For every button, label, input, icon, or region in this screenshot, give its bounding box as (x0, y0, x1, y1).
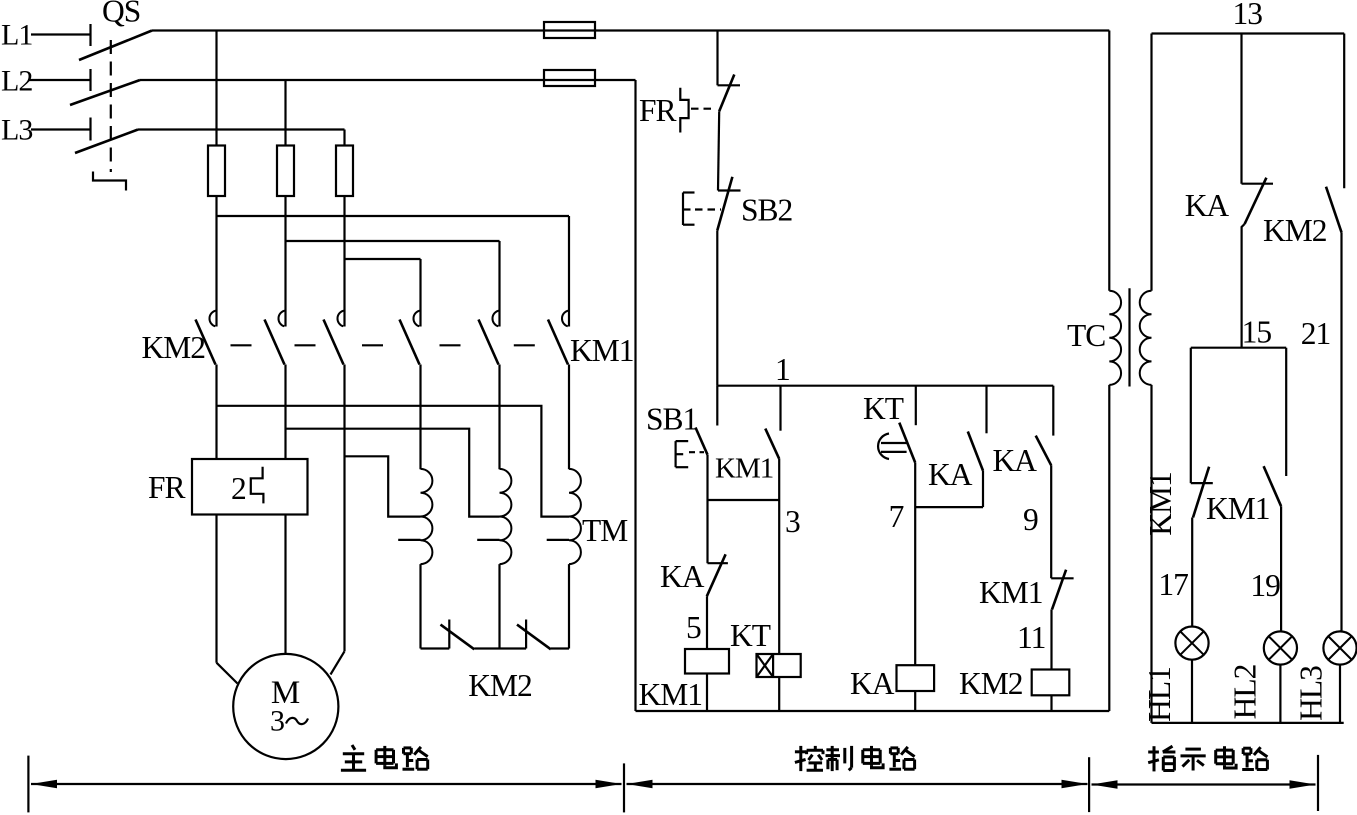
svg-text:KM2: KM2 (468, 668, 532, 703)
svg-text:KM2: KM2 (1263, 213, 1327, 248)
svg-text:19: 19 (1250, 568, 1280, 603)
svg-text:KM2: KM2 (141, 330, 205, 365)
svg-text:KA: KA (850, 666, 895, 701)
svg-text:3: 3 (270, 705, 284, 738)
svg-text:KM1: KM1 (639, 677, 703, 712)
svg-text:17: 17 (1158, 567, 1188, 602)
svg-text:1: 1 (775, 352, 790, 387)
svg-text:QS: QS (102, 0, 140, 29)
svg-text:L3: L3 (1, 114, 32, 147)
svg-text:5: 5 (686, 610, 701, 645)
svg-text:KA: KA (993, 443, 1038, 478)
svg-text:KM1: KM1 (979, 575, 1043, 610)
svg-text:KM1: KM1 (1206, 491, 1270, 526)
svg-text:7: 7 (889, 499, 904, 534)
svg-text:HL3: HL3 (1294, 666, 1329, 721)
svg-text:15: 15 (1242, 315, 1272, 350)
svg-text:11: 11 (1017, 620, 1045, 655)
svg-text:KM1: KM1 (570, 333, 634, 368)
svg-text:KM1: KM1 (1143, 472, 1178, 536)
svg-text:TM: TM (582, 513, 628, 548)
svg-text:13: 13 (1233, 0, 1263, 31)
svg-text:KM1: KM1 (715, 453, 773, 485)
svg-text:L2: L2 (1, 65, 32, 98)
svg-text:L1: L1 (1, 19, 32, 52)
svg-text:FR: FR (148, 470, 186, 505)
svg-text:KA: KA (660, 559, 705, 594)
svg-text:TC: TC (1067, 318, 1105, 353)
svg-text:3: 3 (785, 504, 800, 539)
svg-text:KA: KA (1185, 188, 1230, 223)
svg-text:21: 21 (1301, 316, 1331, 351)
svg-text:2: 2 (231, 471, 246, 506)
svg-text:HL2: HL2 (1227, 664, 1262, 719)
svg-text:KT: KT (863, 391, 904, 426)
svg-text:KM2: KM2 (959, 666, 1023, 701)
svg-text:FR: FR (639, 93, 677, 128)
svg-text:KA: KA (928, 457, 973, 492)
svg-text:SB1: SB1 (646, 402, 697, 437)
svg-text:KT: KT (730, 618, 771, 653)
svg-text:SB2: SB2 (741, 193, 793, 228)
svg-text:HL1: HL1 (1142, 667, 1177, 722)
svg-text:9: 9 (1023, 502, 1038, 537)
